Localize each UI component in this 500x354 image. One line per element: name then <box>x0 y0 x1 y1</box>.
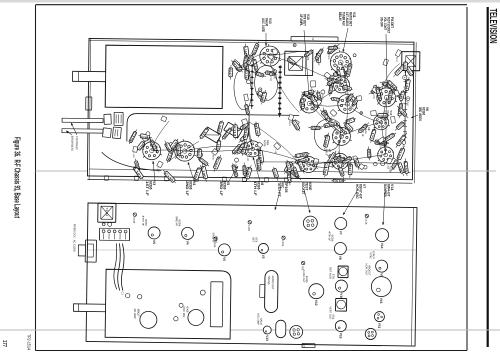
tube socket V12 6AQ5 audio out <box>376 86 397 107</box>
coil L107 <box>380 82 394 87</box>
terminal strip TS1 <box>251 64 254 109</box>
svg-text:AGC: AGC <box>280 182 284 189</box>
coil L125 <box>404 59 407 73</box>
svg-text:R147: R147 <box>228 68 232 76</box>
resistor R182 <box>259 148 262 165</box>
resistor R146 <box>273 70 277 74</box>
tube V16 hor out <box>371 276 391 296</box>
corner connector tab <box>86 97 92 110</box>
resistor R141 <box>272 49 277 55</box>
svg-text:4TH IF: 4TH IF <box>141 216 145 227</box>
interlock socket <box>85 240 96 262</box>
capacitor C150 <box>136 140 145 152</box>
capacitor C134 <box>335 158 346 162</box>
coil L170 <box>195 165 201 181</box>
svg-text:V14: V14 <box>380 243 384 249</box>
resistor R113 <box>234 123 237 140</box>
svg-text:L117: L117 <box>353 161 355 167</box>
coil L145 <box>400 90 403 102</box>
svg-text:PL2A: PL2A <box>303 344 306 347</box>
coil L130 <box>320 110 332 123</box>
resistor R181 <box>327 156 340 160</box>
svg-text:6CB6: 6CB6 <box>256 181 260 189</box>
svg-text:V14: V14 <box>390 184 394 190</box>
chassis A inner bend line <box>90 169 411 173</box>
wire W13 <box>309 160 341 167</box>
svg-text:L150: L150 <box>386 164 388 170</box>
coil L130 <box>202 163 207 181</box>
frame border left <box>36 4 468 6</box>
tube V6 sound i-f <box>218 244 230 256</box>
svg-text:SOCKET: SOCKET <box>301 182 305 195</box>
wire W30 <box>267 51 299 55</box>
resistor R149 <box>311 81 316 87</box>
on-off switch S101 <box>104 114 111 124</box>
resistor R179 <box>256 122 259 138</box>
svg-text:R173: R173 <box>327 54 329 60</box>
svg-text:6CB6: 6CB6 <box>148 181 152 189</box>
svg-text:L147: L147 <box>300 99 305 109</box>
tube socket V2 6X8 converter <box>174 139 196 161</box>
capacitor C162 <box>199 148 201 160</box>
resistor R139 <box>142 135 150 143</box>
wire W9 <box>347 104 381 122</box>
resistor R101 <box>315 99 322 107</box>
frame border right <box>36 350 468 352</box>
resistor R173 <box>288 114 293 120</box>
capacitor C177 <box>392 158 398 170</box>
wire W21 <box>152 121 169 151</box>
filter terminal strip <box>128 229 130 241</box>
capacitor C193 <box>244 94 249 101</box>
coil L153 <box>332 122 344 133</box>
svg-text:V11: V11 <box>352 12 356 18</box>
svg-text:3RD I-F: 3RD I-F <box>219 181 223 197</box>
resistor R103 <box>177 142 179 158</box>
tube V12 audio out <box>309 284 324 299</box>
tuner shield strip <box>210 282 223 327</box>
svg-text:V11: V11 <box>377 323 381 329</box>
svg-text:AGC AMP: AGC AMP <box>256 313 260 325</box>
capacitor C157 <box>393 63 406 77</box>
coil L157 <box>157 161 164 168</box>
resistor R160 <box>232 144 242 155</box>
resistor R110 <box>328 151 337 166</box>
tube V13 agc <box>263 326 271 334</box>
coil L141 <box>405 158 407 176</box>
frame border top <box>466 7 468 351</box>
coil L165 <box>135 159 139 173</box>
resistor R169 <box>264 72 277 74</box>
svg-text:C174: C174 <box>244 71 248 79</box>
svg-text:RF AMP: RF AMP <box>133 309 137 319</box>
capacitor C110 <box>376 85 381 102</box>
coil L107 <box>238 122 249 131</box>
capacitor C111 <box>259 88 262 91</box>
capacitor C106 <box>288 167 291 185</box>
svg-text:V7: V7 <box>339 231 343 235</box>
coil L177 <box>371 127 376 143</box>
chassis B outline <box>86 203 417 346</box>
wiring loom outline 3 <box>314 119 341 152</box>
resistor R151 <box>406 66 414 77</box>
capacitor C158 <box>325 133 329 150</box>
coil L153 <box>257 142 263 148</box>
capacitor C108 <box>245 62 249 80</box>
coil L147 <box>302 96 304 111</box>
capacitor C188 <box>241 119 247 125</box>
svg-text:C182: C182 <box>406 101 408 107</box>
tuner box bottom view <box>105 269 231 339</box>
capacitor C142 <box>373 85 376 88</box>
wire W22 <box>337 62 342 85</box>
scan fold line 1 <box>36 170 497 172</box>
capacitor C176 <box>325 160 328 177</box>
wire bundle <box>121 243 124 290</box>
tube socket V15 6CB6 <box>244 139 262 157</box>
svg-text:R173: R173 <box>288 121 290 127</box>
capacitor C140 <box>233 59 240 66</box>
connector P102 tab <box>291 36 338 41</box>
svg-text:R117: R117 <box>348 165 353 175</box>
svg-text:BRIGHTNESS: BRIGHTNESS <box>70 136 74 151</box>
tube socket V9 6AU6 <box>299 92 320 113</box>
capacitor C155 <box>245 101 249 115</box>
capacitor C145 <box>163 170 176 183</box>
chassis A flange line <box>87 179 412 183</box>
frame border bottom <box>35 5 37 351</box>
svg-text:3RD VIDEO: 3RD VIDEO <box>418 107 422 121</box>
tube V2 audio <box>258 243 268 253</box>
svg-text:V7: V7 <box>362 184 366 188</box>
coil L133 <box>397 106 408 118</box>
resistor R163 <box>363 165 367 169</box>
capacitor C121 <box>383 59 389 66</box>
coil L159 <box>372 87 379 94</box>
svg-text:C140: C140 <box>132 217 136 224</box>
chassis A outline <box>87 39 414 180</box>
svg-text:6CB6: 6CB6 <box>263 140 267 147</box>
coil L119 <box>246 80 250 84</box>
grommet C118 <box>365 214 368 217</box>
capacitor C171 <box>399 101 402 118</box>
svg-text:AF AMPL: AF AMPL <box>299 14 303 26</box>
resistor R168 <box>321 123 338 127</box>
capacitor C149 <box>138 135 152 137</box>
wiring loom outline 1 <box>254 65 277 101</box>
tuner trimmer C1 <box>125 293 129 297</box>
wire W4 <box>385 97 388 154</box>
mounting lug M8 <box>104 176 108 181</box>
i-f transformer Z103 <box>203 127 221 143</box>
tuner trimmer C4 <box>179 303 183 307</box>
svg-text:V12: V12 <box>314 300 318 306</box>
svg-text:L109: L109 <box>132 152 134 158</box>
resistor R178 <box>381 161 385 165</box>
coil L106 <box>373 162 377 166</box>
svg-text:C173: C173 <box>331 162 333 168</box>
svg-text:V13: V13 <box>268 18 272 24</box>
resistor R142 <box>273 167 277 181</box>
mounting lug M4 <box>222 177 226 182</box>
svg-text:6T8 DET: 6T8 DET <box>303 14 307 26</box>
wire W2 <box>340 62 348 104</box>
electrolytic can C148 <box>336 298 347 311</box>
mounting lug M2 <box>264 177 268 182</box>
coil L100 <box>339 165 344 178</box>
svg-text:L159: L159 <box>379 144 381 150</box>
terminal strip TS2 <box>279 65 282 117</box>
coil L134 <box>253 58 257 73</box>
coil L159 <box>378 137 385 144</box>
tube socket V13 6AU6 AGC gate <box>259 44 281 66</box>
coil L109 <box>325 162 329 167</box>
coil L164 <box>245 44 247 59</box>
svg-text:6AU6: 6AU6 <box>265 18 269 26</box>
mounting lug M6 <box>164 176 168 181</box>
resistor R113 <box>308 127 322 129</box>
coil L108 <box>146 132 150 136</box>
svg-text:V6: V6 <box>260 181 264 185</box>
resistor R149 <box>402 141 406 145</box>
resistor R135 <box>247 54 252 66</box>
coil L104 <box>358 164 364 170</box>
svg-text:SYNC: SYNC <box>369 252 373 259</box>
coil L185 <box>293 158 310 163</box>
coil L111 <box>200 127 209 139</box>
wire W24 <box>381 97 386 122</box>
connector PL2A tab <box>302 344 315 348</box>
svg-text:C105: C105 <box>213 241 217 248</box>
audio output transformer T103 <box>264 270 278 312</box>
svg-text:TRANS: TRANS <box>267 276 271 285</box>
coil L153 <box>317 90 321 105</box>
wire W7 <box>253 149 309 165</box>
svg-text:R113: R113 <box>233 125 237 137</box>
capacitor C193 <box>246 167 252 173</box>
chassis A bottom inner line <box>89 39 91 180</box>
svg-text:C162: C162 <box>196 150 201 158</box>
resistor R184 <box>360 112 363 115</box>
i-f transformer T102 <box>402 52 420 71</box>
svg-text:R149: R149 <box>310 87 312 93</box>
capacitor C170 <box>290 170 301 180</box>
svg-text:1ST AUDIO: 1ST AUDIO <box>345 12 349 26</box>
interlock plug stub <box>78 245 85 256</box>
svg-text:V16: V16 <box>379 298 383 304</box>
capacitor C180 <box>341 156 353 164</box>
coil L129 <box>242 140 246 155</box>
terminal row TS3 <box>404 64 407 144</box>
wire W32 <box>342 122 381 136</box>
mounting lug M5 <box>194 177 198 182</box>
capacitor C143 <box>382 133 396 143</box>
capacitor C180 <box>232 163 237 178</box>
resistor R162 <box>353 54 356 57</box>
capacitor C182 <box>406 97 410 101</box>
svg-text:C122: C122 <box>269 76 271 82</box>
resistor R147 <box>229 65 232 80</box>
coil L146 <box>298 159 304 174</box>
page edge shading <box>0 0 500 3</box>
resistor R121 <box>324 72 331 79</box>
resistor R104 <box>212 149 219 156</box>
coil L183 <box>343 118 356 123</box>
coil L181 <box>396 133 407 148</box>
svg-text:R104: R104 <box>211 155 213 161</box>
svg-text:PIX DET: PIX DET <box>390 17 394 28</box>
capacitor C127 <box>293 44 296 47</box>
power transformer T104 <box>98 203 116 222</box>
wire W20 <box>169 141 199 161</box>
svg-text:177: 177 <box>1 340 7 347</box>
coil L150 <box>293 153 309 157</box>
grommet C140 <box>133 213 136 216</box>
capacitor C170 <box>169 139 178 151</box>
capacitor C134 <box>324 135 329 142</box>
capacitor C129 <box>222 127 232 140</box>
tube V14 socket <box>375 229 388 242</box>
resistor R129 <box>318 52 319 66</box>
capacitor C176 <box>344 123 353 132</box>
capacitor C186 <box>368 146 369 160</box>
coil L117 <box>353 156 357 160</box>
resistor R144 <box>244 53 246 69</box>
scan fold line 3 <box>88 249 417 251</box>
resistor R181 <box>326 79 337 86</box>
wire W6 <box>339 136 342 161</box>
svg-text:OSC MIX: OSC MIX <box>182 306 186 317</box>
resistor R157 <box>231 60 243 72</box>
resistor R162 <box>312 99 318 106</box>
wire W3 <box>309 104 342 136</box>
tube V9 socket <box>376 260 388 272</box>
svg-text:VERT OUT: VERT OUT <box>328 306 332 319</box>
chassis B right edge inner line <box>412 208 414 346</box>
svg-text:6AL5: 6AL5 <box>325 149 329 156</box>
standoff E1 <box>236 65 242 71</box>
resistor R180 <box>287 58 298 66</box>
grommet TP3 <box>301 261 304 264</box>
tube V8 socket <box>334 242 346 254</box>
coil L106 <box>262 90 266 105</box>
resistor R116 <box>395 121 405 130</box>
tube kine test socket <box>303 216 317 230</box>
coil L191 <box>246 152 250 156</box>
coil L135 <box>358 122 370 134</box>
capacitor C137 <box>287 160 291 175</box>
capacitor C145 <box>327 47 341 49</box>
grommet C103 <box>248 221 251 224</box>
wire W19 <box>269 62 300 112</box>
tube socket V14 pix det <box>373 113 390 130</box>
wiring loom arc 4 <box>102 152 162 171</box>
svg-text:C186: C186 <box>367 150 372 158</box>
svg-text:V4: V4 <box>185 241 189 245</box>
resistor R196 <box>327 44 339 54</box>
coil L125 <box>376 141 389 143</box>
svg-text:1ST I-F: 1ST I-F <box>145 181 149 197</box>
coil L150 <box>386 158 392 164</box>
svg-text:6CB6: 6CB6 <box>222 181 226 189</box>
capacitor C174 <box>245 67 248 82</box>
resistor R134 <box>391 116 396 123</box>
svg-text:CONTRAST: CONTRAST <box>75 136 79 150</box>
coil L169 <box>246 165 251 181</box>
resistor R134 <box>398 146 405 162</box>
capacitor C188 <box>330 77 333 80</box>
coil L188 <box>293 164 299 179</box>
coil L164 <box>387 80 399 91</box>
chassis A top edge inner line <box>89 41 414 45</box>
wire W23 <box>309 104 347 107</box>
resistor R185 <box>369 86 383 94</box>
svg-text:AGC GATE: AGC GATE <box>261 18 265 32</box>
svg-text:6W4-GT: 6W4-GT <box>386 184 390 197</box>
wire W1 <box>266 54 341 85</box>
coil L101 <box>134 166 144 179</box>
resistor R122 <box>341 86 353 90</box>
svg-text:C124: C124 <box>395 57 397 63</box>
capacitor C151 <box>167 142 174 149</box>
capacitor C128 <box>390 88 403 99</box>
wire W28 <box>342 104 348 136</box>
svg-text:L159: L159 <box>372 94 374 100</box>
coil L124 <box>239 133 250 143</box>
header rule <box>487 7 489 347</box>
coil L143 <box>403 75 407 79</box>
scan fold line 2 <box>0 329 500 331</box>
wiring channel <box>127 113 299 143</box>
svg-text:4TH IF: 4TH IF <box>327 231 331 242</box>
tube socket V7 6AL5 <box>332 125 352 145</box>
coil L197 <box>274 142 281 149</box>
tuner shield box <box>105 45 223 108</box>
tuner tube socket V2 6X8 osc-mix <box>188 309 204 325</box>
resistor R131 <box>167 146 173 163</box>
resistor R193 <box>284 161 292 174</box>
contrast shaft <box>62 118 103 122</box>
resistor R152 <box>389 88 392 104</box>
grommet C105 <box>214 237 217 240</box>
coil L117 <box>268 53 274 59</box>
tube V5 4th pix i-f <box>148 227 160 239</box>
resistor R183 <box>244 162 245 178</box>
tube pilot socket <box>290 325 303 338</box>
brightness control R109 <box>112 127 121 139</box>
resistor R163 <box>252 41 258 56</box>
svg-text:DET: DET <box>251 237 255 243</box>
svg-text:V8: V8 <box>425 107 429 111</box>
svg-text:4TH I-F: 4TH I-F <box>253 181 257 197</box>
resistor R192 <box>323 108 329 123</box>
svg-text:C143: C143 <box>394 96 396 102</box>
filter choke L105 <box>276 320 286 338</box>
wire W31 <box>340 62 345 85</box>
tube V11 socket <box>374 312 384 322</box>
svg-text:HOR OUT: HOR OUT <box>365 263 369 275</box>
svg-text:TP3: TP3 <box>301 265 305 270</box>
resistor R131 <box>331 180 345 182</box>
grommet C104 <box>282 236 285 239</box>
capacitor C198 <box>293 120 299 126</box>
capacitor C113 <box>303 50 314 58</box>
wiring loom outline 2 <box>234 69 252 110</box>
svg-text:TEST SOCKET: TEST SOCKET <box>387 17 391 33</box>
tuner shaft <box>73 71 106 81</box>
coil L171 <box>335 72 349 76</box>
tube socket V5 6CB6 3rd i-f <box>331 151 349 169</box>
